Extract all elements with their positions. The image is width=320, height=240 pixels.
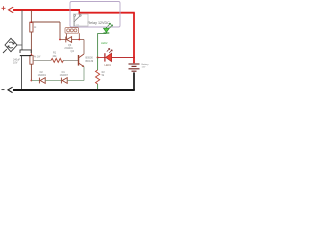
wire mic feed drop xyxy=(21,11,23,50)
electret capsule top plate xyxy=(20,50,31,53)
node coil drive xyxy=(59,39,61,41)
svg-text:Relay 12VDC: Relay 12VDC xyxy=(88,21,111,25)
wire diode chain to emitter xyxy=(67,80,84,82)
transistor Q4 xyxy=(79,54,85,67)
wire R1b down xyxy=(30,64,32,80)
connector arrow Vminus xyxy=(8,87,13,92)
svg-text:Q4: Q4 xyxy=(71,50,75,53)
connector arrow V+ xyxy=(9,7,14,12)
relay switch lever xyxy=(74,16,81,22)
svg-text:Battery: Battery xyxy=(142,63,150,66)
wire column drop to R1a xyxy=(30,11,32,23)
wire R2 to ground xyxy=(97,84,99,90)
wire base feed down xyxy=(59,22,61,40)
wire battery to ground corner xyxy=(133,72,135,90)
svg-text:LED1: LED1 xyxy=(105,63,112,67)
node diode chain xyxy=(31,80,33,82)
svg-text:1k: 1k xyxy=(34,27,37,29)
wire base feed horizontal xyxy=(31,21,60,23)
relay box xyxy=(70,2,120,28)
microphone diamond xyxy=(3,38,17,53)
resistor R2 zigzag xyxy=(96,70,100,84)
relay coil loops xyxy=(67,29,77,32)
wire coil pin left xyxy=(66,34,68,40)
LED1 red xyxy=(105,48,112,61)
node top of R1a xyxy=(31,21,33,23)
node LED junction xyxy=(97,57,99,59)
svg-text:10V: 10V xyxy=(13,61,18,64)
resistor R1 zigzag xyxy=(51,58,63,62)
relay switch pin circles xyxy=(74,15,76,17)
wire red top rail right xyxy=(79,12,135,14)
node battery rail xyxy=(133,57,135,59)
wire ground rail xyxy=(13,89,135,91)
svg-text:1N4007: 1N4007 xyxy=(60,74,69,77)
node top of R1b xyxy=(31,54,33,56)
electret capsule bottom plate xyxy=(20,55,32,57)
wire signal to R1 xyxy=(33,59,51,61)
wire emitter down xyxy=(83,67,85,81)
resistor box R1b xyxy=(30,55,33,64)
node coil right xyxy=(78,39,80,41)
battery B1 xyxy=(129,64,140,71)
wire mic to column xyxy=(17,44,22,46)
wire R1a to R1b xyxy=(30,32,32,55)
wire between diodes xyxy=(45,80,61,82)
svg-text:10k: 10k xyxy=(52,55,57,58)
wire capsule to ground xyxy=(21,56,23,90)
svg-text:12V: 12V xyxy=(142,67,146,69)
relay pin common xyxy=(74,16,76,26)
wire diode chain xyxy=(31,80,40,82)
wire red top rail left xyxy=(13,9,80,11)
LED2 green xyxy=(104,23,113,33)
diode D1 xyxy=(61,78,67,84)
wire red rail down right side xyxy=(133,13,135,64)
svg-text:5k: 5k xyxy=(102,74,105,77)
wire LED2 to junction xyxy=(98,34,107,58)
wire red rail jog xyxy=(78,10,80,15)
svg-text:LED2: LED2 xyxy=(101,41,108,45)
wire coil pin right xyxy=(78,33,80,39)
wire LED1 to battery rail xyxy=(112,57,134,59)
wire collector riser xyxy=(83,40,85,55)
svg-text:4k 1W: 4k 1W xyxy=(34,56,41,58)
plus terminal label xyxy=(2,6,6,10)
relay switch frame xyxy=(74,14,89,26)
minus terminal label xyxy=(2,89,5,91)
relay coil box xyxy=(65,28,79,34)
wire junction to LED1 xyxy=(98,57,105,59)
wire coil drive horizontal xyxy=(60,39,84,41)
node rail-mic xyxy=(21,10,23,12)
svg-text:BD139: BD139 xyxy=(86,60,94,63)
svg-text:1N4001: 1N4001 xyxy=(38,74,47,77)
wire junction to R2 xyxy=(97,58,99,71)
diode D3 xyxy=(66,37,72,43)
diode D2 xyxy=(39,78,45,84)
wire R1 to base xyxy=(63,59,78,61)
resistor box R1a xyxy=(30,22,33,32)
node rail-R xyxy=(31,10,33,12)
